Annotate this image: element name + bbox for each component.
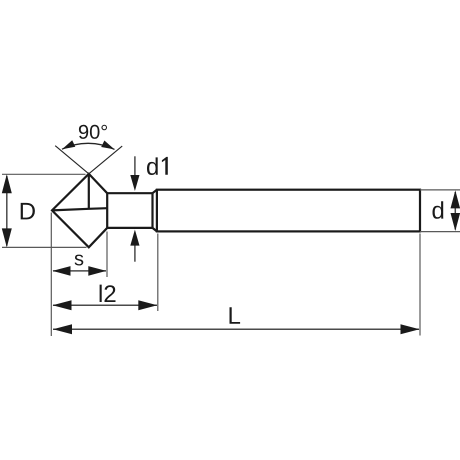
l2 arrowhead left (53, 300, 72, 310)
D extension line bottom (2, 246, 87, 248)
L arrowhead right (401, 324, 420, 334)
l2 dimension line (53, 304, 157, 306)
90 degree arc (62, 143, 115, 149)
d extension line bottom (420, 231, 460, 233)
s dimension line (53, 270, 106, 272)
D extension line top (2, 173, 86, 175)
s arrowhead right (88, 266, 106, 276)
arc arrowhead right (101, 141, 114, 150)
arc arrowhead left (62, 140, 75, 149)
shank (157, 190, 420, 232)
label l2 (100, 285, 116, 302)
countersink head outline (52, 174, 107, 248)
l2 extension line right (157, 234, 159, 312)
D dimension arrow line (6, 176, 8, 246)
l2 arrowhead right (138, 300, 157, 310)
d1 arrow up (134, 244, 136, 262)
label d1 (147, 157, 168, 175)
label 90deg (79, 125, 107, 139)
tip extension line (s/l2/L left) (50, 213, 52, 337)
construction line left (cone edge extended) (55, 146, 89, 174)
d1 arrow down (134, 156, 136, 178)
D arrowhead bottom (2, 228, 12, 247)
d extension line top (420, 189, 460, 191)
construction line right (cone edge extended) (89, 146, 122, 174)
flute edge vertical (88, 174, 90, 209)
label s (75, 255, 84, 266)
label D (21, 203, 35, 220)
flute edge from tip (52, 208, 107, 210)
label d (433, 201, 444, 219)
label L (230, 307, 241, 324)
neck (d1 section) (107, 193, 152, 228)
d arrowhead top (451, 190, 460, 208)
d dimension arrow line (454, 192, 456, 230)
L extension line right (419, 234, 421, 336)
s extension line right (106, 232, 108, 278)
L arrowhead left (53, 324, 72, 334)
L dimension line (53, 328, 419, 330)
D arrowhead top (2, 174, 12, 193)
s arrowhead left (53, 266, 71, 276)
chamfer neck to shank (153, 190, 157, 232)
d arrowhead bottom (451, 213, 460, 231)
